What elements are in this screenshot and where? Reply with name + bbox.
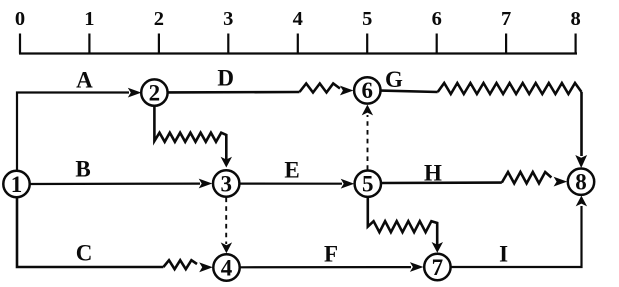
svg-text:3: 3 xyxy=(220,171,232,196)
node 3 xyxy=(213,170,239,196)
node 1 xyxy=(3,171,29,197)
svg-text:I: I xyxy=(499,242,508,267)
label B xyxy=(75,156,90,181)
svg-text:5: 5 xyxy=(362,172,374,197)
svg-text:8: 8 xyxy=(570,8,580,30)
activity A arrow (1 to 2) xyxy=(17,88,141,172)
svg-text:B: B xyxy=(75,156,90,181)
svg-text:G: G xyxy=(385,67,403,92)
svg-text:5: 5 xyxy=(362,8,372,30)
node 5 xyxy=(355,171,381,197)
ruler tick 7 xyxy=(505,34,507,54)
activity H arrow with float zigzag (5 to 8) xyxy=(381,172,567,187)
svg-text:0: 0 xyxy=(15,8,25,30)
svg-text:4: 4 xyxy=(293,8,303,30)
label H xyxy=(424,160,442,185)
label E xyxy=(284,158,299,183)
svg-text:6: 6 xyxy=(362,78,374,103)
node 6 xyxy=(354,77,380,103)
svg-text:6: 6 xyxy=(432,8,442,30)
svg-text:D: D xyxy=(217,66,234,91)
activity B arrow (1 to 3) xyxy=(30,179,213,189)
node 8 xyxy=(568,169,594,195)
float of path 2 to 3 (zigzag drop) xyxy=(154,106,232,168)
svg-text:3: 3 xyxy=(223,8,233,30)
svg-text:2: 2 xyxy=(154,8,164,30)
svg-text:F: F xyxy=(324,242,338,267)
activity I arrow (7 to 8) xyxy=(451,196,587,267)
svg-text:E: E xyxy=(284,158,299,183)
node 7 xyxy=(424,254,450,280)
dummy arrow 5 to 6 (dashed) xyxy=(367,115,369,170)
ruler tick 8 xyxy=(574,34,576,54)
activity D arrow with float zigzag (2 to 6) xyxy=(168,84,354,96)
label D xyxy=(217,66,234,91)
ruler tick 2 xyxy=(158,34,160,54)
svg-text:7: 7 xyxy=(432,255,444,280)
activity F arrow (4 to 7) xyxy=(240,262,423,272)
ruler tick 3 xyxy=(227,34,229,54)
label G xyxy=(385,67,403,92)
ruler tick 4 xyxy=(297,34,299,54)
svg-text:8: 8 xyxy=(575,170,587,195)
activity C arrow with float zigzag (1 to 4) xyxy=(17,197,213,273)
svg-text:H: H xyxy=(424,160,442,185)
svg-text:4: 4 xyxy=(221,255,233,280)
label F xyxy=(324,242,338,267)
ruler labels 0-8 xyxy=(15,8,581,30)
svg-text:A: A xyxy=(76,68,93,93)
svg-text:7: 7 xyxy=(501,8,511,30)
label I xyxy=(499,242,508,267)
ruler tick 5 xyxy=(366,34,368,54)
activity E arrow (3 to 5) xyxy=(240,179,354,189)
float of path 5 to 7 (zigzag drop) xyxy=(368,197,443,253)
svg-text:C: C xyxy=(76,241,93,266)
activity G arrow with float zigzag (6 to 8) xyxy=(381,83,587,168)
svg-text:1: 1 xyxy=(11,172,23,197)
node 4 xyxy=(213,254,239,280)
svg-text:1: 1 xyxy=(84,8,94,30)
ruler baseline xyxy=(19,52,577,54)
label C xyxy=(76,241,93,266)
ruler tick 6 xyxy=(436,34,438,54)
ruler tick 0 xyxy=(19,34,21,54)
node 2 xyxy=(141,79,167,105)
ruler tick 1 xyxy=(88,34,90,54)
label A xyxy=(76,68,93,93)
dummy arrow 3 to 4 (dashed) xyxy=(225,198,227,245)
svg-text:2: 2 xyxy=(149,80,161,105)
